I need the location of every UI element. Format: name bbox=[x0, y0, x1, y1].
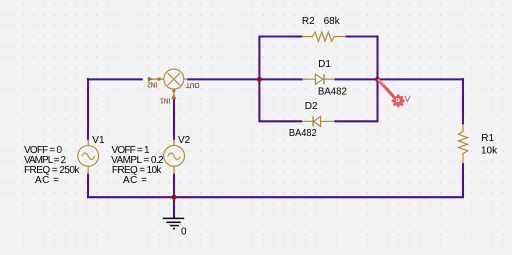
wire R1 bottom vertical bbox=[462, 163, 464, 198]
svg-text:0: 0 bbox=[181, 226, 187, 237]
svg-text:10k: 10k bbox=[481, 145, 498, 156]
mixer pin label IN1 bbox=[160, 97, 170, 104]
wire mixer OUT to left rail bbox=[187, 78, 259, 80]
svg-text:IN2: IN2 bbox=[147, 80, 157, 87]
wire D2 right bbox=[334, 120, 378, 122]
wire right rail to R1 bbox=[378, 78, 464, 80]
mixer IN2 input arrow bbox=[148, 77, 153, 82]
wire ground stub bbox=[173, 197, 175, 218]
V2 parameter text block bbox=[111, 145, 164, 186]
junction dot ground bbox=[172, 195, 177, 200]
label R1 value 10k bbox=[481, 145, 498, 156]
junction dot right rail bbox=[375, 77, 380, 82]
label ground 0 bbox=[181, 226, 187, 237]
svg-text:V1: V1 bbox=[92, 135, 105, 146]
op-amp U1 multiplier MULT symbol bbox=[148, 69, 188, 99]
wire left rail vertical bbox=[258, 37, 260, 122]
mixer IN1 pin square bbox=[172, 89, 175, 92]
voltage probe V marker bbox=[378, 79, 405, 107]
wire D1 right bbox=[334, 78, 378, 80]
svg-text:D1: D1 bbox=[318, 59, 331, 70]
svg-text:D2: D2 bbox=[305, 101, 318, 112]
svg-text:R2: R2 bbox=[302, 16, 315, 27]
resistor R2 bbox=[302, 32, 345, 41]
label R2 value 68k bbox=[302, 16, 341, 27]
ground symbol 0 bbox=[163, 218, 184, 228]
label D1 bbox=[318, 59, 331, 70]
resistor R1 bbox=[458, 124, 467, 164]
svg-text:R1: R1 bbox=[481, 133, 494, 144]
diode D2 bbox=[302, 116, 334, 126]
wire bottom bus bbox=[87, 196, 463, 198]
wire V2 bottom vertical bbox=[173, 174, 175, 199]
V1 parameter text block bbox=[24, 145, 80, 186]
wire V1 top to mixer horizontal bbox=[88, 78, 143, 80]
label D1 value BA482 bbox=[318, 87, 347, 98]
svg-text:OUT: OUT bbox=[185, 81, 199, 88]
junction dot left rail bbox=[257, 77, 262, 82]
wire D2 left bbox=[259, 120, 303, 122]
wire right rail vertical bbox=[376, 37, 378, 122]
wire R1 top vertical bbox=[462, 78, 464, 125]
svg-text:AC =: AC = bbox=[35, 175, 59, 186]
wire V1 bottom vertical bbox=[87, 174, 89, 199]
wire R2 left bbox=[259, 35, 303, 37]
label V2 bbox=[178, 135, 191, 146]
svg-text:BA482: BA482 bbox=[289, 128, 317, 139]
svg-text:IN1: IN1 bbox=[160, 97, 170, 104]
voltage source V2 symbol bbox=[164, 139, 185, 174]
voltage source V1 symbol bbox=[78, 139, 99, 174]
mixer pin label IN2 bbox=[147, 80, 157, 87]
label D2 bbox=[305, 101, 318, 112]
svg-text:AC =: AC = bbox=[123, 175, 147, 186]
mixer pin label OUT bbox=[185, 81, 199, 88]
diode D1 bbox=[302, 74, 334, 84]
label R1 bbox=[481, 133, 494, 144]
mixer IN2 pin square bbox=[158, 78, 161, 81]
label V1 bbox=[92, 135, 105, 146]
svg-text:BA482: BA482 bbox=[318, 87, 347, 98]
mixer IN1 input arrow bbox=[171, 94, 176, 99]
wire V1 top vertical bbox=[87, 78, 89, 140]
svg-text:68k: 68k bbox=[324, 16, 341, 27]
svg-text:V2: V2 bbox=[178, 135, 191, 146]
label D2 value BA482 bbox=[289, 128, 317, 139]
wire D1 left bbox=[259, 78, 303, 80]
label probe V bbox=[405, 96, 410, 102]
wire mixer IN1 to V2 vertical bbox=[173, 98, 175, 140]
wire R2 right bbox=[345, 35, 378, 37]
